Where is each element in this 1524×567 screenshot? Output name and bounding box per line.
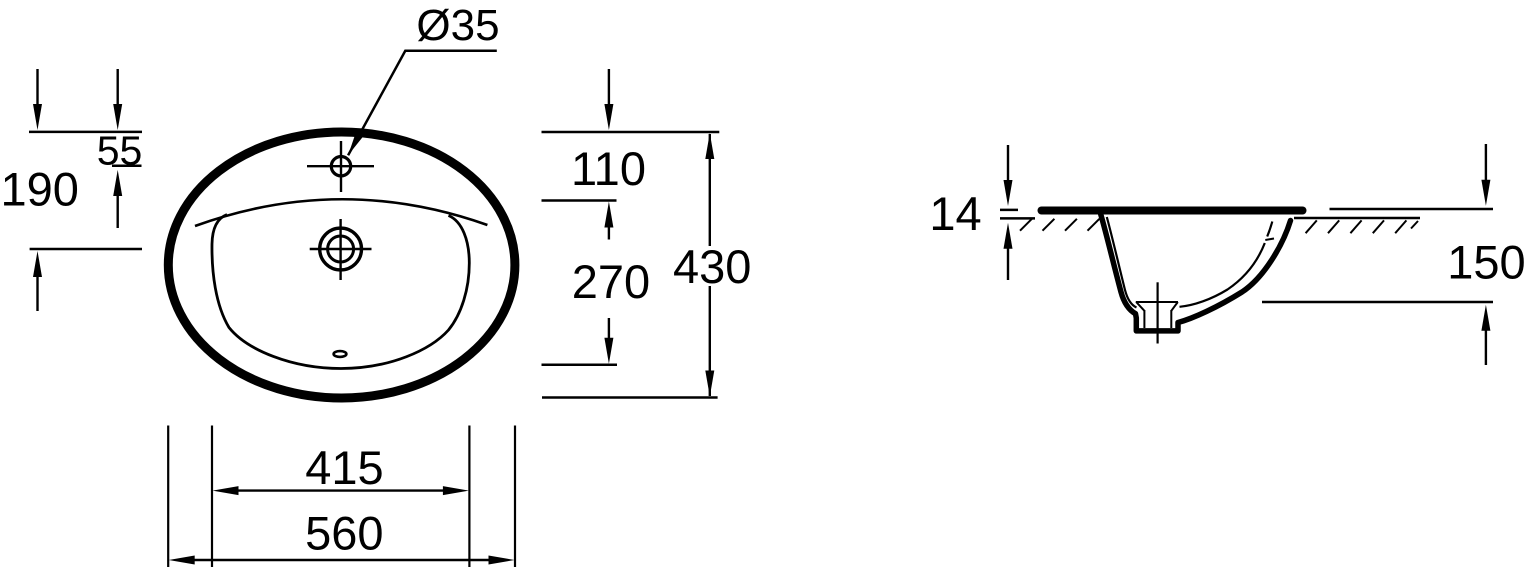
drain crosshair horizontal — [310, 248, 372, 250]
bowl inner wall left — [1107, 217, 1137, 308]
arrow down to rim level — [1485, 144, 1487, 183]
dim line faucet level (55) — [112, 165, 142, 168]
basin back ledge arc — [195, 199, 487, 226]
dim line top reference (left block) — [29, 131, 142, 134]
counter hatch left — [1020, 219, 1032, 231]
drain funnel left slant — [1136, 302, 1144, 311]
leader line for hole diameter — [348, 51, 497, 156]
svg-text:560: 560 — [305, 507, 383, 560]
arrow up to 55 line — [116, 193, 118, 228]
arrow up to 110 line — [608, 224, 610, 240]
svg-text:14: 14 — [929, 187, 981, 240]
dim line vertical 430 lower segment — [709, 286, 711, 396]
bowl outer wall section — [1101, 214, 1291, 331]
basin rim bar (section) — [1042, 207, 1303, 215]
dim line vertical 430 upper segment — [709, 134, 711, 246]
arrow down left inner — [116, 69, 118, 107]
svg-text:415: 415 — [305, 441, 383, 494]
drain right vertical — [1170, 310, 1172, 328]
svg-text:430: 430 — [673, 240, 751, 293]
faucet hole circle — [331, 157, 350, 176]
svg-text:270: 270 — [572, 255, 650, 308]
arrow down left outer — [36, 69, 38, 107]
leader arrowhead — [348, 130, 364, 155]
dim line rim level right (150) — [1330, 208, 1494, 211]
extension line outer left (560) — [167, 426, 169, 567]
arrow up to depth line — [1485, 327, 1487, 365]
basin outer rim ellipse (top view) — [168, 132, 515, 398]
inner bowl outline — [212, 215, 469, 369]
dim line bottom reference (430) — [542, 396, 718, 399]
arrow down to rim top — [1007, 145, 1009, 183]
arrow up to counter top — [1007, 245, 1009, 280]
overflow slot tick — [1265, 239, 1274, 241]
drain left vertical — [1143, 310, 1145, 328]
dim line bowl bottom level (270) — [542, 364, 618, 367]
dim line 415 — [230, 489, 451, 491]
drain funnel top line — [1136, 301, 1178, 303]
faucet hole crosshair vertical — [340, 141, 342, 192]
dim tick counter top (14) — [1000, 217, 1035, 220]
drain centerline — [1156, 282, 1158, 343]
drain inner circle — [328, 236, 354, 262]
dim line 560 — [186, 559, 497, 561]
bowl inner wall right — [1180, 243, 1265, 307]
counter surface line right — [1294, 217, 1420, 220]
svg-text:150: 150 — [1447, 236, 1524, 289]
drain outer circle — [320, 228, 362, 270]
arrow down 430 — [705, 371, 714, 397]
arrow up to 190 line — [36, 274, 38, 311]
svg-text:190: 190 — [0, 162, 78, 215]
svg-text:55: 55 — [97, 127, 143, 173]
dim tick rim top (14) — [1000, 209, 1018, 212]
overflow slot hook — [1267, 222, 1272, 237]
drain crosshair vertical — [339, 219, 341, 280]
extension line outer right (560) — [514, 426, 516, 567]
svg-text:Ø35: Ø35 — [416, 1, 499, 50]
dim line bowl depth (150) — [1262, 301, 1493, 304]
overflow hole — [334, 351, 347, 357]
arrow down to top line — [608, 69, 610, 107]
arrow up 430 — [705, 133, 714, 159]
counter hatch right — [1306, 220, 1317, 233]
arrow down to 270 line — [608, 318, 610, 341]
svg-text:110: 110 — [571, 142, 646, 195]
extension line inner right (415) — [468, 426, 470, 567]
dim line ledge level (110) — [542, 199, 617, 202]
faucet hole crosshair horizontal — [307, 165, 374, 167]
drain funnel right slant — [1171, 302, 1178, 311]
dim line drain level (190) — [30, 248, 142, 251]
extension line inner left (415) — [211, 426, 213, 567]
dim line top reference (right block) — [542, 131, 720, 134]
